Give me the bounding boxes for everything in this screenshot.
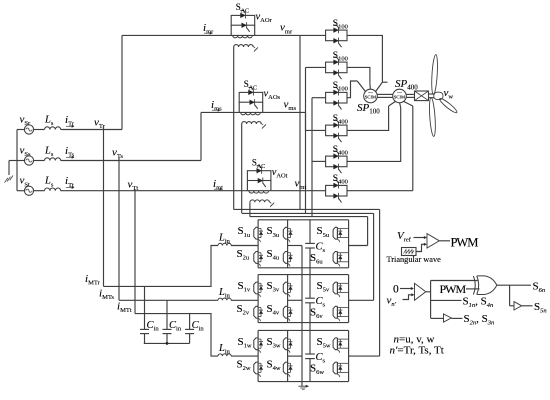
svg-text:0: 0: [393, 284, 399, 296]
svg-text:SCIM: SCIM: [394, 94, 405, 99]
svg-text:n′=Tr, Ts, Tt: n′=Tr, Ts, Tt: [390, 345, 444, 357]
svg-text:Triangular wave: Triangular wave: [387, 255, 442, 264]
svg-text:SCIM: SCIM: [365, 94, 376, 99]
svg-text:PWM: PWM: [440, 282, 467, 296]
svg-text:PWM: PWM: [451, 235, 479, 249]
